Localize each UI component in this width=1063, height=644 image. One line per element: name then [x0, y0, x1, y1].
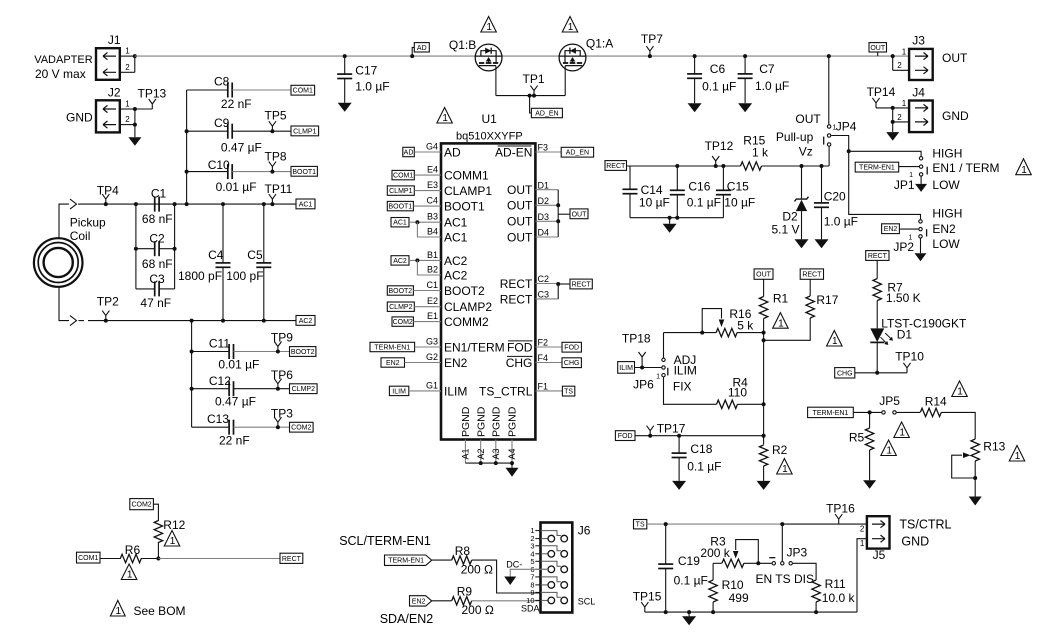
- test point TP2: [97, 295, 119, 323]
- svg-text:1: 1: [127, 570, 133, 581]
- U1 pin C3 RECT: [500, 290, 558, 307]
- svg-text:J3: J3: [912, 34, 925, 48]
- warning triangle at JP5: [894, 422, 910, 438]
- svg-text:1: 1: [1021, 165, 1027, 176]
- svg-text:Q1:B: Q1:B: [449, 38, 476, 52]
- resistor R6: [120, 543, 141, 563]
- svg-text:R9: R9: [457, 585, 473, 599]
- wire R14 to R13: [941, 412, 975, 439]
- svg-text:1: 1: [778, 318, 784, 329]
- svg-text:OUT: OUT: [756, 272, 772, 279]
- svg-text:RECT: RECT: [802, 272, 822, 279]
- svg-text:SCL: SCL: [578, 596, 596, 606]
- svg-text:68 nF: 68 nF: [142, 257, 173, 271]
- svg-text:G4: G4: [426, 141, 438, 151]
- svg-text:E2: E2: [427, 296, 438, 306]
- svg-text:68 nF: 68 nF: [142, 212, 173, 226]
- svg-text:TP18: TP18: [622, 332, 651, 346]
- svg-text:OUT: OUT: [572, 211, 588, 218]
- node RECT at R6: [280, 553, 303, 563]
- node CLMP2 at U1: [387, 302, 441, 311]
- svg-text:SDA/EN2: SDA/EN2: [380, 612, 434, 626]
- svg-text:0.1 µF: 0.1 µF: [702, 80, 736, 94]
- node CHG at U1: [562, 358, 581, 368]
- J6 pins 1,2: [530, 526, 567, 543]
- test point TP4: [97, 183, 119, 206]
- svg-text:1: 1: [486, 22, 492, 33]
- svg-text:OUT: OUT: [507, 183, 533, 197]
- capacitor C15: [716, 164, 755, 218]
- svg-text:AC1: AC1: [444, 230, 468, 244]
- U1 pin G4 AD: [426, 141, 461, 159]
- svg-text:JP6: JP6: [633, 378, 654, 392]
- svg-text:Pull-up: Pull-up: [776, 130, 814, 144]
- connector J4: [891, 86, 969, 132]
- U1 pin G1 ILIM: [426, 380, 467, 398]
- svg-text:JP1: JP1: [894, 178, 915, 192]
- svg-text:EN1 / TERM: EN1 / TERM: [932, 161, 999, 175]
- svg-text:EN2: EN2: [932, 222, 956, 236]
- svg-text:ILIM: ILIM: [619, 365, 633, 372]
- LED D1: [870, 301, 967, 373]
- test point TP1: [523, 72, 545, 97]
- svg-text:C7: C7: [759, 62, 775, 76]
- wire left cap bus: [186, 90, 188, 204]
- warning triangle at EN1/TERM: [1016, 159, 1032, 175]
- svg-text:1: 1: [170, 536, 176, 547]
- wire Q1:A to J3: [586, 55, 909, 57]
- svg-text:TP7: TP7: [641, 32, 663, 46]
- svg-text:GND: GND: [66, 110, 93, 124]
- node EN2 at R9: [410, 596, 452, 606]
- wire VADAPTER rail: [135, 55, 475, 57]
- wire R9 to J6: [472, 600, 541, 602]
- svg-text:D1: D1: [538, 180, 550, 190]
- node COM2 at R12: [130, 499, 159, 521]
- potentiometer R16: [664, 307, 764, 357]
- ground at J2: [128, 137, 141, 146]
- svg-text:F3: F3: [538, 143, 549, 153]
- svg-text:A1: A1: [461, 448, 471, 459]
- svg-text:AD: AD: [417, 45, 427, 52]
- svg-text:AC2: AC2: [444, 254, 468, 268]
- svg-text:TP10: TP10: [895, 349, 924, 363]
- node TS at U1: [562, 386, 574, 396]
- U1 pin D3 OUT: [507, 212, 558, 229]
- svg-text:1: 1: [782, 464, 788, 475]
- capacitor C18: [672, 434, 722, 481]
- warning triangle at R2: [777, 459, 793, 475]
- svg-text:2: 2: [897, 61, 902, 70]
- test point TP18: [622, 332, 651, 368]
- potentiometer R3: [700, 535, 771, 568]
- svg-text:C15: C15: [727, 180, 749, 194]
- svg-text:AC2: AC2: [393, 258, 407, 265]
- svg-text:C1: C1: [151, 186, 167, 200]
- svg-text:TS: TS: [564, 389, 573, 396]
- svg-text:1: 1: [116, 606, 122, 617]
- svg-text:10 µF: 10 µF: [639, 195, 670, 209]
- test point TP13: [135, 87, 167, 110]
- node AD at U1: [403, 147, 441, 156]
- svg-text:1: 1: [442, 113, 448, 124]
- svg-text:OUT: OUT: [870, 45, 886, 52]
- node AD_EN at U1: [561, 147, 593, 157]
- resistor R4: [664, 376, 764, 409]
- svg-text:FOD: FOD: [618, 433, 633, 440]
- capacitor C2: [134, 204, 177, 271]
- svg-text:AD: AD: [444, 145, 461, 159]
- svg-text:PGND: PGND: [475, 406, 487, 437]
- zener diode D2: [772, 164, 809, 239]
- svg-text:BOOT2: BOOT2: [388, 288, 412, 295]
- svg-text:1.0 µF: 1.0 µF: [755, 79, 789, 93]
- svg-text:C2: C2: [149, 231, 165, 245]
- ground at U1 PGND: [511, 463, 513, 468]
- U1 pin A2 PGND: [475, 406, 487, 463]
- wire rail to JP4: [828, 147, 830, 166]
- svg-text:1 k: 1 k: [752, 146, 769, 160]
- capacitor C12: [190, 374, 290, 409]
- capacitor C16: [670, 164, 721, 218]
- capacitor C6: [687, 54, 736, 103]
- svg-text:CHG: CHG: [506, 356, 533, 370]
- wire coil bottom: [59, 287, 69, 321]
- ground at C17: [338, 103, 352, 112]
- svg-text:R6: R6: [125, 543, 141, 557]
- jumper JP3: [756, 546, 814, 587]
- warning triangle at R17: [827, 331, 843, 347]
- svg-text:AD_EN: AD_EN: [535, 111, 558, 118]
- svg-text:C13: C13: [207, 412, 229, 426]
- svg-text:R17: R17: [816, 293, 838, 307]
- svg-text:R8: R8: [455, 544, 471, 558]
- svg-text:EN TS DIS: EN TS DIS: [756, 572, 814, 586]
- J6 pins 3,4: [530, 541, 567, 558]
- resistor R1: [759, 292, 788, 319]
- node FOD at TP17: [615, 431, 763, 441]
- J6 pins 7,8: [530, 573, 567, 590]
- node CLMP2: [290, 384, 318, 394]
- svg-text:1800 pF: 1800 pF: [178, 269, 222, 283]
- svg-text:22 nF: 22 nF: [221, 97, 252, 111]
- svg-text:F2: F2: [538, 338, 549, 348]
- resistor R7: [873, 279, 921, 305]
- svg-text:HIGH: HIGH: [932, 147, 962, 161]
- capacitor C10: [185, 158, 291, 194]
- svg-text:22 nF: 22 nF: [219, 434, 250, 448]
- connector J2: [66, 86, 137, 138]
- svg-text:C2: C2: [538, 274, 550, 284]
- svg-text:AC1: AC1: [444, 216, 468, 230]
- warning triangle at R12: [164, 531, 180, 547]
- svg-text:C16: C16: [688, 180, 710, 194]
- ground at R2: [757, 481, 771, 490]
- ground at C20: [815, 239, 829, 248]
- capacitor C11: [190, 337, 290, 372]
- svg-text:TP4: TP4: [97, 183, 119, 197]
- svg-text:TP13: TP13: [138, 87, 167, 101]
- svg-text:OUT: OUT: [795, 112, 821, 126]
- svg-text:AC2: AC2: [444, 268, 468, 282]
- svg-text:HIGH: HIGH: [932, 206, 962, 220]
- U1 pin F3 AD-EN: [495, 143, 561, 160]
- jumper JP1: [894, 157, 927, 192]
- svg-text:G1: G1: [426, 380, 438, 390]
- svg-text:BOOT2: BOOT2: [444, 284, 485, 298]
- JP2 level labels: [932, 206, 962, 251]
- svg-text:TP2: TP2: [97, 295, 119, 309]
- svg-text:BOOT1: BOOT1: [444, 200, 485, 214]
- U1 pin D4 OUT: [507, 228, 558, 245]
- svg-text:D2: D2: [782, 209, 798, 223]
- node COM1 at U1: [392, 170, 441, 179]
- svg-text:AC1: AC1: [393, 220, 407, 227]
- node OUT at U1: [570, 209, 588, 219]
- svg-text:TP5: TP5: [265, 109, 287, 123]
- svg-text:TS/CTRL: TS/CTRL: [899, 518, 951, 532]
- svg-text:EN2: EN2: [386, 360, 400, 367]
- test point TP11: [265, 182, 293, 206]
- svg-text:RECT: RECT: [868, 253, 888, 260]
- svg-text:EN2: EN2: [884, 226, 898, 233]
- svg-text:A4: A4: [507, 448, 517, 459]
- capacitor C19: [658, 524, 708, 614]
- svg-text:R5: R5: [849, 431, 865, 445]
- test point TP9: [271, 331, 293, 354]
- JP1 level labels: [932, 147, 999, 193]
- svg-text:LTST-C190GKT: LTST-C190GKT: [881, 316, 967, 330]
- svg-text:EN2: EN2: [444, 356, 468, 370]
- node COM1: [291, 85, 315, 95]
- node BOOT1: [291, 166, 317, 176]
- warning triangle at R14: [952, 381, 968, 397]
- wire gate bus: [496, 95, 565, 97]
- wire JP4 pin2 to JP1/JP2: [831, 136, 921, 220]
- svg-text:B3: B3: [427, 212, 438, 222]
- U1 pin B3 AC1: [427, 212, 468, 230]
- svg-text:CLMP1: CLMP1: [293, 128, 316, 135]
- svg-text:J4: J4: [912, 86, 925, 100]
- wire DC- to ground: [506, 559, 548, 576]
- J6 pins 5,6: [530, 557, 567, 574]
- node TS at C19: [634, 520, 867, 529]
- node BOOT1 at U1: [387, 201, 441, 210]
- svg-text:C4: C4: [208, 248, 224, 262]
- svg-text:1: 1: [832, 336, 838, 347]
- svg-text:D2: D2: [538, 196, 550, 206]
- svg-text:RECT: RECT: [282, 556, 302, 563]
- svg-text:TS: TS: [636, 522, 645, 529]
- wire RECT pin bracket: [556, 282, 570, 299]
- svg-text:OUT: OUT: [942, 51, 968, 65]
- svg-text:Pickup: Pickup: [70, 215, 106, 229]
- svg-text:AC1: AC1: [299, 201, 313, 208]
- jumper JP6: [633, 353, 697, 394]
- svg-text:JP5: JP5: [879, 394, 900, 408]
- svg-text:TERM-EN1: TERM-EN1: [813, 410, 849, 417]
- svg-text:1: 1: [125, 99, 130, 108]
- coil top connector chevron: [70, 199, 77, 209]
- svg-text:TP8: TP8: [265, 149, 287, 163]
- test point TP14: [867, 85, 896, 108]
- test point TP15: [633, 589, 662, 612]
- svg-text:FOD: FOD: [564, 345, 579, 352]
- node RECT rail label: [605, 161, 627, 171]
- svg-text:AD-EN: AD-EN: [495, 145, 532, 159]
- svg-text:0.47 µF: 0.47 µF: [215, 395, 256, 409]
- svg-text:JP2: JP2: [893, 240, 914, 254]
- warning triangle at R1: [773, 313, 789, 329]
- potentiometer R13: [952, 439, 1006, 497]
- svg-text:A3: A3: [491, 448, 501, 459]
- resistor R10: [709, 563, 749, 612]
- wire R17 to R1: [764, 318, 811, 340]
- ground at JP1: [920, 177, 922, 184]
- svg-text:TP11: TP11: [265, 182, 293, 196]
- U1 pin D2 OUT: [507, 196, 558, 213]
- svg-text:TP1: TP1: [523, 72, 545, 86]
- svg-text:1: 1: [860, 539, 865, 548]
- svg-text:2: 2: [125, 115, 130, 124]
- svg-text:U1: U1: [482, 112, 498, 126]
- U1 pin B2 AC2: [427, 264, 468, 282]
- U1 pin B4 AC1: [427, 226, 468, 244]
- svg-text:D1: D1: [897, 328, 913, 342]
- resistor R17: [806, 293, 839, 318]
- svg-text:CHG: CHG: [837, 370, 853, 377]
- jumper JP4: [776, 54, 857, 158]
- test point TP3: [271, 406, 293, 429]
- U1 pin F1 TS_CTRL: [479, 382, 562, 399]
- svg-text:TP3: TP3: [271, 406, 293, 420]
- svg-text:1: 1: [568, 22, 574, 33]
- node AD: [410, 43, 429, 59]
- svg-text:2: 2: [125, 63, 130, 72]
- node AC1 at U1 pins B3 B4: [391, 218, 441, 238]
- svg-text:TP9: TP9: [271, 331, 293, 345]
- capacitor C20: [814, 164, 858, 239]
- svg-text:B2: B2: [427, 264, 438, 274]
- svg-text:TP12: TP12: [705, 139, 734, 153]
- ground at R5: [863, 480, 876, 489]
- svg-text:C11: C11: [209, 337, 230, 351]
- wire AC1 line: [78, 203, 296, 205]
- svg-text:FIX: FIX: [673, 380, 692, 394]
- svg-text:TERM-EN1: TERM-EN1: [374, 345, 410, 352]
- U1 pin G3 EN1/TERM: [426, 336, 505, 354]
- U1 pin F4 CHG: [506, 353, 562, 370]
- svg-text:5 k: 5 k: [737, 318, 754, 332]
- node CHG at D1: [835, 368, 907, 378]
- svg-text:ILIM: ILIM: [674, 364, 697, 378]
- node ILIM at U1: [389, 386, 441, 395]
- capacitor C14: [623, 166, 670, 218]
- node TERM-EN1 at JP1: [855, 162, 919, 172]
- svg-text:TS_CTRL: TS_CTRL: [479, 384, 533, 398]
- warning triangle See BOM: [110, 600, 185, 617]
- wire OUT pin bracket: [556, 190, 570, 237]
- node TERM-EN1 at JP5: [808, 407, 882, 417]
- U1 pin C2 RECT: [500, 274, 558, 291]
- svg-text:R1: R1: [773, 292, 789, 306]
- svg-text:bq510XXYFP: bq510XXYFP: [456, 131, 523, 143]
- svg-text:CLMP2: CLMP2: [389, 304, 412, 311]
- U1 pin D1 OUT: [507, 180, 558, 197]
- node RECT at U1: [570, 279, 592, 289]
- svg-text:J2: J2: [108, 86, 121, 100]
- svg-text:AC2: AC2: [299, 318, 313, 325]
- svg-text:G2: G2: [426, 352, 438, 362]
- test point TP8: [265, 149, 287, 173]
- node EN2 at JP2: [882, 224, 919, 234]
- svg-text:1: 1: [902, 47, 907, 56]
- svg-text:0.1 µF: 0.1 µF: [687, 460, 721, 474]
- U1 pin C1 BOOT2: [426, 280, 485, 298]
- warning triangle above Q1:B: [481, 17, 497, 33]
- svg-text:D4: D4: [538, 228, 550, 238]
- capacitor C1: [134, 186, 189, 226]
- resistor R14: [920, 395, 947, 417]
- wire bottom rail: [645, 610, 857, 614]
- test point TP10: [895, 349, 924, 373]
- warning triangle at R13: [1009, 446, 1025, 462]
- U1 pin F2 FOD: [507, 338, 562, 355]
- svg-text:TP15: TP15: [633, 589, 662, 603]
- test point TP6: [271, 368, 293, 391]
- svg-text:SDA: SDA: [521, 603, 540, 613]
- svg-text:R12: R12: [163, 518, 185, 532]
- svg-text:COM1: COM1: [393, 173, 413, 180]
- svg-text:R14: R14: [925, 395, 947, 409]
- svg-text:1: 1: [1015, 451, 1021, 462]
- svg-text:CHG: CHG: [564, 360, 580, 367]
- node COM2: [290, 422, 314, 432]
- wire between Q1:B and Q1:A: [502, 55, 559, 57]
- svg-text:1: 1: [125, 47, 130, 56]
- svg-text:TERM-EN1: TERM-EN1: [388, 558, 424, 565]
- svg-text:RECT: RECT: [500, 277, 533, 291]
- svg-text:RECT: RECT: [572, 282, 592, 289]
- svg-text:Coil: Coil: [70, 229, 91, 243]
- svg-text:C19: C19: [678, 554, 700, 568]
- node AC2: [296, 316, 315, 326]
- svg-text:2: 2: [860, 524, 865, 533]
- svg-text:J5: J5: [873, 548, 886, 562]
- capacitor C13: [192, 412, 290, 448]
- svg-text:TERM-EN1: TERM-EN1: [859, 165, 895, 172]
- svg-text:C10: C10: [208, 158, 230, 172]
- ground at bottom rail: [688, 612, 690, 616]
- wire R8 to J6: [472, 560, 541, 593]
- ground at C6: [688, 103, 702, 112]
- node OUT at R1: [754, 269, 773, 297]
- svg-text:TP17: TP17: [657, 422, 686, 436]
- svg-text:SCL/TERM-EN1: SCL/TERM-EN1: [339, 534, 431, 548]
- ground at J4: [886, 132, 899, 141]
- U1 pin E3 CLAMP1: [427, 180, 492, 198]
- svg-text:OUT: OUT: [507, 230, 533, 244]
- U1 pin A4 PGND: [507, 406, 519, 463]
- svg-text:100 pF: 100 pF: [226, 269, 263, 283]
- coil bottom connector chevron: [70, 316, 77, 326]
- warning triangle above Q1:A: [562, 17, 578, 33]
- svg-text:499: 499: [729, 591, 749, 605]
- node EN2 at U1: [381, 358, 441, 367]
- svg-text:C20: C20: [824, 190, 846, 204]
- svg-text:0.01 µF: 0.01 µF: [218, 358, 259, 372]
- warning triangle at R5: [881, 440, 897, 456]
